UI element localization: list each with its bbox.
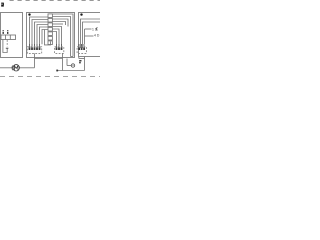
- wire stub 4D: [85, 35, 94, 37]
- motor M letter: [15, 66, 18, 70]
- wire from connA down to M line: [34, 53, 36, 67]
- wire loop 3 right: [52, 19, 68, 27]
- wire drop b2: [52, 29, 59, 44]
- wire drop b1: [52, 32, 56, 45]
- wire loop 2 right: [52, 17, 70, 57]
- node dot in J3: [80, 13, 82, 15]
- component box T1 (left): [1, 13, 23, 58]
- wire loop 6 left: [42, 30, 48, 45]
- pin ladder of J2: [48, 14, 52, 45]
- node dot in J2: [28, 13, 30, 15]
- wire loop 1 left: [30, 17, 49, 44]
- connector B ticks: [57, 44, 62, 47]
- bar divider 2: [9, 35, 11, 40]
- wire L at ladder bottom: [45, 30, 51, 45]
- wire drop b3: [52, 27, 61, 45]
- label below J3: [79, 60, 81, 63]
- pin label mark 2: [7, 30, 8, 34]
- motor wire left: [0, 67, 13, 69]
- connector A ticks: [30, 44, 40, 47]
- wire stub 1D: [85, 28, 92, 30]
- dashed stub below bar: [6, 40, 8, 46]
- connector B dashed shell: [55, 47, 64, 54]
- stub down from J3 left: [78, 57, 80, 59]
- bottom dashed section line: [0, 76, 100, 78]
- ground terminal blob: [56, 70, 58, 72]
- vertical from stub 1D: [84, 29, 86, 44]
- wire drop to splice: [66, 59, 68, 66]
- wire loop 1 right: [52, 14, 73, 57]
- inner rect of J3: [81, 19, 103, 48]
- connector C ticks: [79, 44, 84, 47]
- pin label mark 1: [3, 30, 4, 34]
- svg-text:4 D: 4 D: [94, 34, 100, 38]
- motor M1 circle: [13, 65, 19, 71]
- wire loop 2 left: [32, 20, 48, 45]
- inline connector arc: [12, 65, 13, 70]
- component box J3 (right): [79, 13, 103, 57]
- connector mark 1D: [96, 28, 97, 31]
- ground rail wire: [57, 70, 85, 72]
- wire loop 5 right: [52, 23, 63, 25]
- wire loop 4 left: [37, 25, 48, 45]
- connector U bottom: [79, 58, 85, 60]
- wire to splice circle: [67, 65, 71, 67]
- wire loop 5 left: [40, 27, 49, 44]
- wire drop from connB: [62, 53, 64, 70]
- wire across below J2: [35, 58, 63, 60]
- top dashed bus line: [10, 0, 101, 2]
- wire from bar down with elbow: [3, 40, 7, 53]
- motor wire right: [19, 67, 34, 69]
- stub down from J3 right: [84, 57, 86, 59]
- splice circle mark: [73, 65, 74, 66]
- connector A dashed shell: [27, 47, 41, 54]
- connector C dashed shell: [77, 47, 86, 54]
- connector C pin row: [78, 47, 85, 50]
- connector A pin row: [29, 47, 41, 50]
- wire loop 4 right: [52, 22, 65, 26]
- connector B pin row: [56, 47, 63, 50]
- terminal tick: [6, 47, 9, 49]
- bar divider 1: [5, 35, 7, 40]
- label a: [1, 3, 4, 7]
- inner line 2 of J3: [83, 22, 103, 48]
- loop joint bottom: [71, 56, 74, 58]
- wire loop 3 left: [35, 22, 49, 44]
- connector bar inside T1: [1, 35, 16, 40]
- component box J2 (middle): [27, 13, 75, 58]
- splice circle: [71, 64, 74, 67]
- wire down from J3 to rail: [84, 59, 86, 71]
